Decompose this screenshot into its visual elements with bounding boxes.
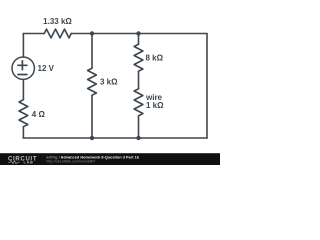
svg-text:LAB: LAB (24, 160, 34, 165)
svg-text:3 kΩ: 3 kΩ (100, 77, 118, 86)
svg-text:8 kΩ: 8 kΩ (146, 53, 164, 62)
svg-text:1 kΩ: 1 kΩ (146, 101, 164, 110)
svg-text:12 V: 12 V (38, 64, 55, 73)
svg-text:http://circuitlab.com/cmwb8t7: http://circuitlab.com/cmwb8t7 (46, 160, 95, 164)
svg-text:4 Ω: 4 Ω (32, 110, 46, 119)
svg-text:1.33 kΩ: 1.33 kΩ (43, 17, 72, 26)
